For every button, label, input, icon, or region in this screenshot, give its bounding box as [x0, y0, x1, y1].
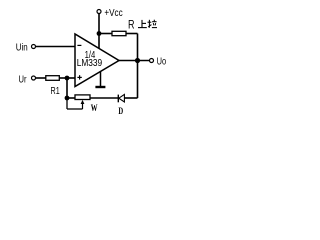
ground [95, 86, 105, 88]
ground pin wire [100, 71, 102, 87]
node Uin terminal [32, 45, 36, 49]
svg-text:Uin: Uin [16, 42, 28, 53]
svg-text:D: D [118, 106, 123, 116]
node Uo terminal [150, 59, 154, 63]
resistor R pull-up [112, 31, 126, 35]
wire down to output node [137, 34, 139, 61]
node Ur terminal [32, 76, 36, 80]
svg-text:R: R [128, 20, 135, 32]
op-amp U1 1/4 LM339 [75, 34, 119, 87]
svg-text:Uo: Uo [157, 56, 167, 67]
junction node B (pot branch) [65, 96, 70, 101]
wire op-amp output to Uo [119, 60, 150, 62]
op-amp plus input mark [77, 76, 81, 78]
junction node A (R1 / feedback) [65, 76, 70, 81]
power +Vcc terminal [97, 10, 101, 14]
wire wiper to node B [67, 108, 83, 110]
wire pull-up resistor to output corner [126, 33, 138, 35]
wire output node down to diode branch [137, 61, 139, 99]
potentiometer wiper arrow [82, 102, 84, 109]
svg-text:Ur: Ur [19, 74, 27, 85]
wire Vcc down to rail junction [98, 14, 100, 34]
wire Ur to R1 [36, 77, 46, 79]
wire R1 to non-inverting input [59, 77, 75, 79]
svg-text:LM339: LM339 [77, 58, 103, 69]
junction output node [135, 58, 140, 63]
wire node B to potentiometer [67, 97, 75, 99]
wire node A down to node B [66, 78, 68, 98]
wire Vcc pin into op-amp [98, 34, 100, 49]
svg-text:W: W [91, 103, 98, 113]
svg-text:+Vcc: +Vcc [104, 8, 122, 19]
diode D [119, 94, 125, 102]
wire Vcc rail to pull-up resistor [99, 33, 112, 35]
svg-text:R1: R1 [51, 85, 60, 97]
wire Uin to inverting input [36, 46, 75, 48]
label shang (pull) hand-drawn CJK [138, 20, 147, 28]
potentiometer W body [75, 95, 90, 100]
label la (up) hand-drawn CJK [148, 20, 158, 28]
op-amp minus input mark [77, 44, 81, 46]
resistor R1 [46, 76, 60, 81]
wire diode cathode to potentiometer [90, 97, 118, 99]
junction Vcc rail [97, 31, 102, 36]
wire corner to diode anode [124, 97, 137, 99]
